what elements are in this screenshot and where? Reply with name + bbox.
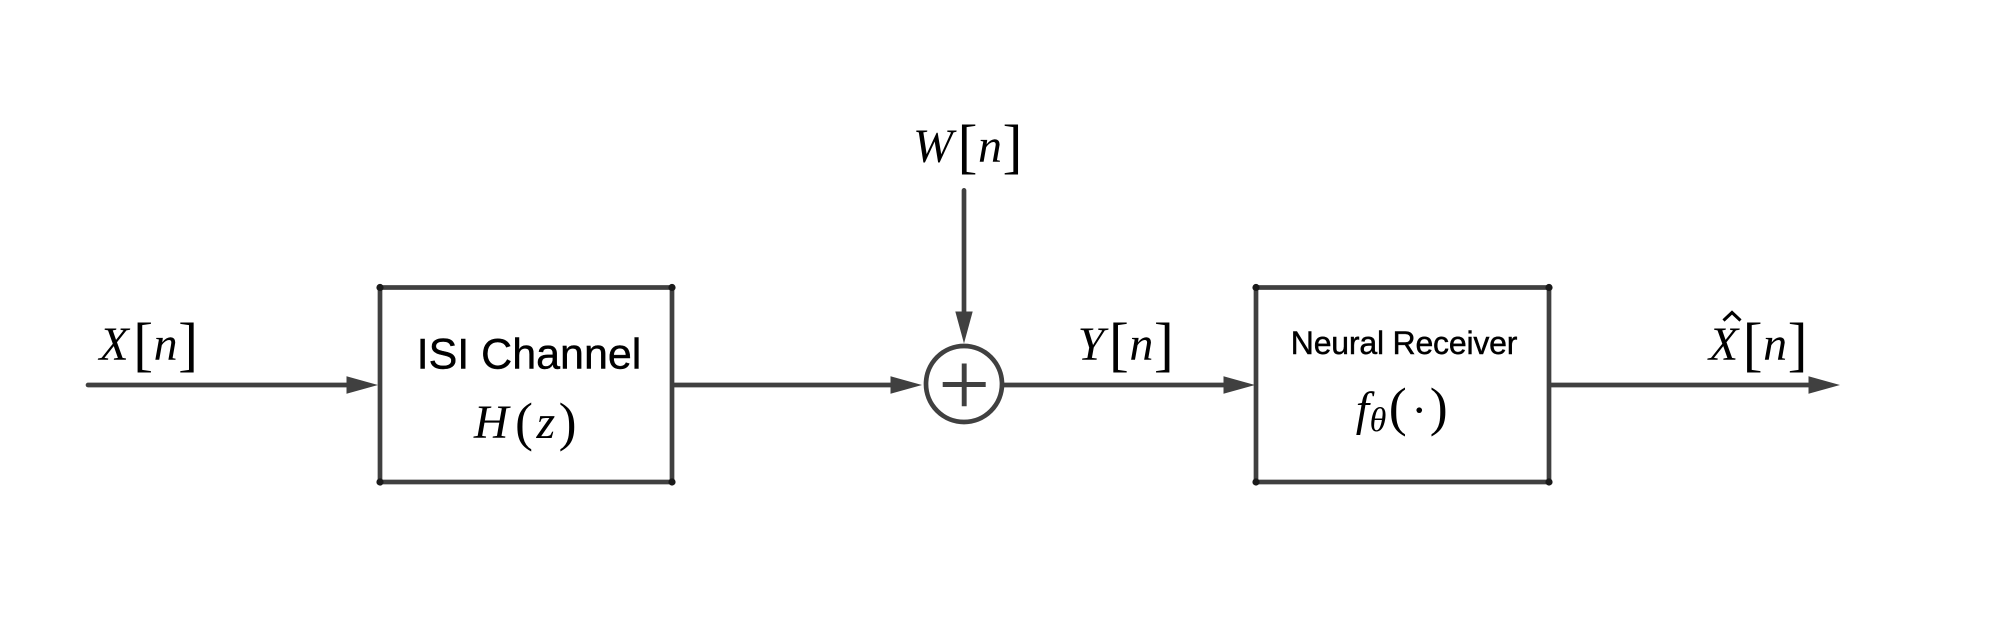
svg-text:Neural Receiver: Neural Receiver — [1291, 325, 1518, 361]
svg-text:X[n]: X[n] — [1707, 312, 1808, 378]
svg-text:W[n]: W[n] — [913, 114, 1023, 180]
svg-text:X[n]: X[n] — [97, 312, 198, 378]
svg-text:H(z): H(z) — [473, 392, 577, 452]
svg-text:ISI Channel: ISI Channel — [417, 331, 642, 379]
svg-text:Y[n]: Y[n] — [1078, 312, 1175, 378]
